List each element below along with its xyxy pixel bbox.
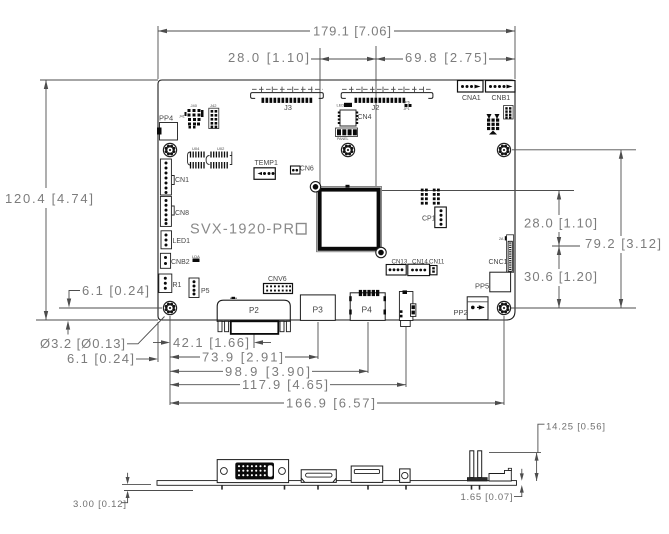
dim 98.9 [3.90] <box>170 322 368 379</box>
svg-text:28.0 [1.10]: 28.0 [1.10] <box>524 216 597 231</box>
svg-text:42.1 [1.66]: 42.1 [1.66] <box>173 335 249 350</box>
svg-text:P5: P5 <box>201 288 210 295</box>
svg-text:CN8: CN8 <box>175 210 189 217</box>
wire: right extension y=246 (chip bottom) <box>552 245 580 247</box>
led LED2 <box>337 103 353 108</box>
dim 179.1 [7.06] <box>158 24 515 39</box>
mounting hole top-left <box>163 143 176 156</box>
svg-text:CNA1: CNA1 <box>462 95 481 102</box>
svg-text:CP1: CP1 <box>422 216 436 223</box>
pcb pins below bar <box>222 485 480 489</box>
svg-text:P2: P2 <box>249 306 259 315</box>
connector CN11 <box>429 259 445 275</box>
svg-text:P4: P4 <box>362 305 373 315</box>
connector CN4 <box>338 110 372 126</box>
wire: hole center extension y=308 <box>59 307 162 309</box>
svg-text:CNV6: CNV6 <box>268 276 287 283</box>
connector P3 (HDMI top view) <box>300 295 335 321</box>
pcb bar (side view) <box>157 481 517 486</box>
connector CNA1 <box>458 81 484 103</box>
connector CNB2 <box>160 253 189 268</box>
mounting hole bottom-left <box>163 301 176 314</box>
sensor TEMP1 <box>254 160 278 179</box>
dim 42.1 [1.66] <box>153 325 271 350</box>
wire: left extension line y=320 (board bottom) <box>36 319 158 321</box>
svg-text:CN4: CN4 <box>358 114 372 121</box>
svg-text:1.65 [0.07]: 1.65 [0.07] <box>461 492 513 503</box>
text SVX-1920-PRO <box>190 222 306 238</box>
connector CNV6 <box>264 276 293 294</box>
wire: board left edge extension down x=158 <box>157 322 159 362</box>
component hatched block under CNB1 <box>487 114 500 135</box>
svg-text:U04: U04 <box>192 146 200 151</box>
dim 3.00 [0.12] <box>73 473 193 510</box>
dim 73.9 [2.91] <box>170 322 318 365</box>
svg-text:79.2 [3.12]: 79.2 [3.12] <box>585 236 661 251</box>
connector CN1 <box>160 159 189 195</box>
connector P5 <box>189 278 210 298</box>
svg-text:U02: U02 <box>217 146 225 151</box>
heatsink screw bottom-right <box>376 247 386 257</box>
connector P6 jack (side view) <box>400 469 411 483</box>
chip U1 <box>317 185 382 252</box>
wire: hole extension down x=170 <box>169 316 171 405</box>
ic U02 <box>206 146 232 169</box>
wire: left extension line y=80 <box>40 79 158 81</box>
svg-text:TEMP1: TEMP1 <box>255 160 278 167</box>
wire: top extension line right (x=515) <box>514 26 516 79</box>
connector P4 DP (side view) <box>351 466 383 482</box>
svg-text:CNB2: CNB2 <box>171 259 190 266</box>
svg-text:30.6 [1.20]: 30.6 [1.20] <box>524 269 597 284</box>
connector CN14 <box>408 259 430 276</box>
heatsink screw top-left <box>310 182 320 192</box>
dim dia 3.2 [0.13] leader <box>40 317 165 352</box>
svg-text:P3: P3 <box>313 305 324 315</box>
svg-text:6.1 [0.24]: 6.1 [0.24] <box>67 351 134 366</box>
svg-text:28.0 [1.10]: 28.0 [1.10] <box>228 50 309 65</box>
svg-text:3.00 [0.12]: 3.00 [0.12] <box>73 499 126 510</box>
svg-text:CNB1: CNB1 <box>492 95 511 102</box>
component LDA <box>192 254 200 262</box>
header J42 <box>209 103 219 129</box>
svg-text:LDA: LDA <box>192 254 200 259</box>
svg-text:CN11: CN11 <box>429 259 445 266</box>
svg-text:PP2: PP2 <box>454 308 468 317</box>
svg-text:LED1: LED1 <box>173 238 191 245</box>
svg-text:CN1: CN1 <box>175 177 189 184</box>
dim 30.6 [1.20] right <box>524 246 597 308</box>
connector P4 (DP top view) <box>349 290 386 321</box>
ic U04 <box>188 146 205 169</box>
svg-text:14.25 [0.56]: 14.25 [0.56] <box>546 422 605 433</box>
board outline (top view) <box>158 80 515 320</box>
dim 120.4 [4.74] <box>5 80 93 320</box>
resistor R1 <box>159 274 182 293</box>
dim 6.1 [0.24] upper <box>66 283 149 335</box>
connector CP1 <box>422 207 446 228</box>
dim 14.25 [0.56] <box>489 422 605 482</box>
connector PP2 <box>454 297 489 320</box>
connector P3 HDMI (side view) <box>301 470 336 483</box>
header J40 <box>179 103 204 129</box>
svg-text:PP5: PP5 <box>475 282 489 291</box>
mounting hole top-right <box>497 143 510 156</box>
dim 166.9 [6.57] <box>170 316 504 411</box>
wire: right extension y=150 <box>512 149 636 151</box>
dim 6.1 [0.24] lower <box>67 351 158 366</box>
connector PP5 (side view) <box>489 468 512 481</box>
svg-text:J3: J3 <box>284 103 292 112</box>
svg-text:117.9 [4.65]: 117.9 [4.65] <box>242 377 328 392</box>
led LED1 <box>161 231 190 249</box>
mounting hole top-mid <box>341 143 354 156</box>
connector CNC1 <box>489 235 514 272</box>
dim 1.65 [0.07] <box>461 469 524 503</box>
connector P2 DVI (side view) <box>217 460 288 483</box>
connector J3 <box>251 87 324 112</box>
connector PP4 <box>157 114 178 141</box>
svg-text:J40: J40 <box>191 103 198 108</box>
svg-text:69.8 [2.75]: 69.8 [2.75] <box>405 50 487 65</box>
wire: extension line x=320 (chip corner) <box>319 48 321 187</box>
dim 28.0 [1.10] right <box>524 191 597 270</box>
dim 69.8 [2.75] <box>376 50 515 65</box>
svg-text:SVX-1920-PR: SVX-1920-PR <box>190 222 294 238</box>
connector P6 (jack top view) <box>399 290 416 326</box>
svg-text:J41: J41 <box>179 115 185 119</box>
connector CN6 <box>291 166 314 175</box>
dim 28.0 [1.10] top <box>228 50 376 65</box>
svg-text:PP4: PP4 <box>159 114 173 123</box>
svg-text:2A: 2A <box>499 237 504 241</box>
svg-text:CN6: CN6 <box>300 166 314 173</box>
mounting hole bottom-right <box>497 301 510 314</box>
wire: right extension y=190.5 (chip top) <box>380 190 574 192</box>
svg-text:PANEL: PANEL <box>337 137 349 141</box>
jumper JP6 <box>404 101 412 112</box>
wire: extension line x=376 (chip corner) <box>375 46 377 186</box>
connector CN8 <box>160 196 189 226</box>
svg-text:166.9 [6.57]: 166.9 [6.57] <box>286 396 375 411</box>
svg-text:CNC1: CNC1 <box>489 259 508 266</box>
connector below CN4 <box>336 128 358 141</box>
connector PP5 <box>475 272 511 292</box>
svg-text:J42: J42 <box>210 103 217 108</box>
svg-text:120.4 [4.74]: 120.4 [4.74] <box>5 191 93 206</box>
connector P2 (DVI top view) <box>217 297 290 334</box>
connector J2 <box>341 87 433 112</box>
headers above CP1 <box>421 189 440 205</box>
dim 79.2 [3.12] right <box>585 150 661 308</box>
dim 117.9 [4.65] <box>170 327 406 392</box>
svg-text:R1: R1 <box>173 282 182 289</box>
svg-text:6.1 [0.24]: 6.1 [0.24] <box>82 283 149 298</box>
wire: top extension line left (x=158) <box>157 26 159 79</box>
svg-text:Ø3.2 [Ø0.13]: Ø3.2 [Ø0.13] <box>40 336 125 351</box>
svg-text:179.1 [7.06]: 179.1 [7.06] <box>313 24 391 39</box>
svg-text:JP1: JP1 <box>404 107 410 111</box>
svg-text:73.9 [2.91]: 73.9 [2.91] <box>202 350 283 365</box>
wire: right extension y=308 <box>511 307 636 309</box>
header under CNB1 <box>504 106 513 120</box>
connector CNC1 pins (side view) <box>467 451 487 481</box>
svg-text:J2: J2 <box>372 103 380 112</box>
connector CN13 <box>386 259 408 276</box>
svg-text:JP6: JP6 <box>404 101 410 105</box>
connector CNB1 <box>486 81 516 103</box>
